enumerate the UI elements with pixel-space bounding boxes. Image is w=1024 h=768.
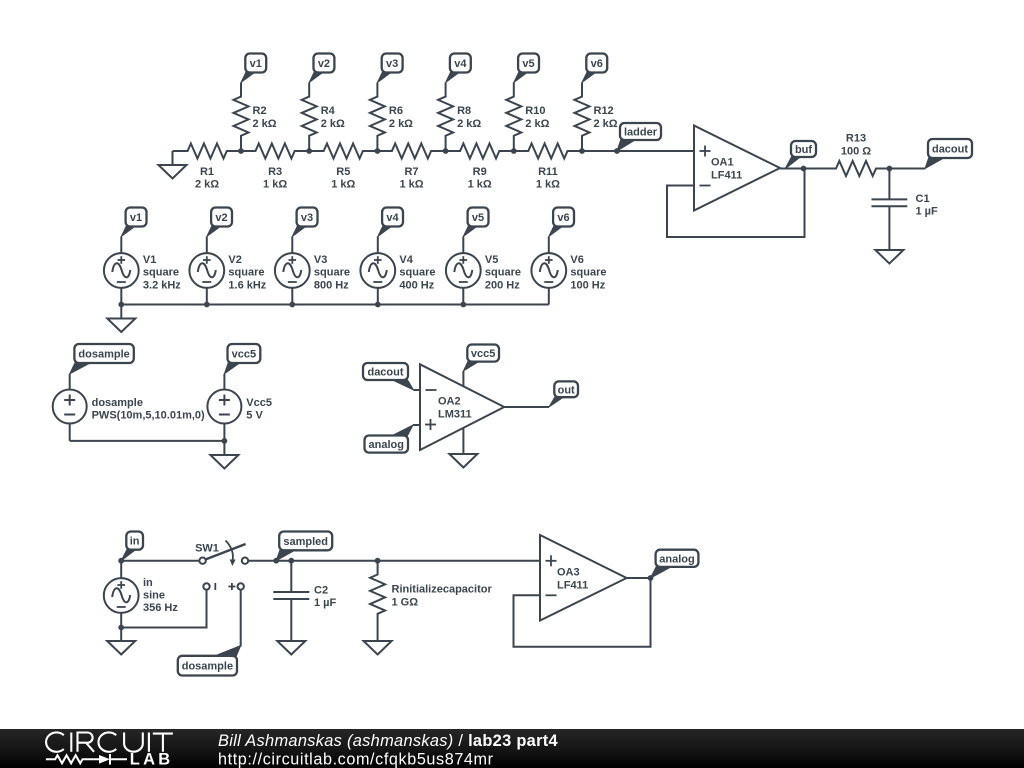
capacitor C2: [273, 561, 336, 641]
junction ladder node 6: [579, 148, 585, 154]
svg-text:dacout: dacout: [932, 144, 968, 156]
svg-text:buf: buf: [795, 144, 812, 156]
svg-text:Bill Ashmanskas (ashmanskas) /: Bill Ashmanskas (ashmanskas) / lab23 par…: [218, 732, 559, 750]
svg-text:1 GΩ: 1 GΩ: [392, 596, 419, 608]
voltage source dosample: [53, 374, 205, 441]
node vcc5 flag: [224, 344, 260, 374]
svg-text:5 V: 5 V: [246, 410, 263, 422]
svg-text:dosample: dosample: [182, 661, 233, 673]
svg-text:square: square: [314, 267, 350, 279]
wire OA1 feedback: [667, 169, 805, 238]
svg-text:in: in: [143, 577, 153, 589]
wire SW1 minus control: [121, 590, 206, 628]
resistor R12: [575, 83, 618, 152]
svg-text:2 kΩ: 2 kΩ: [525, 118, 549, 130]
node v6 flag: [549, 208, 574, 237]
svg-text:dosample: dosample: [78, 349, 129, 361]
resistor R10: [506, 83, 549, 152]
svg-text:R13: R13: [846, 132, 866, 144]
node sampled flag: [273, 532, 332, 564]
svg-text:square: square: [570, 267, 606, 279]
ground: [159, 151, 187, 179]
svg-text:v1: v1: [250, 58, 262, 70]
op-amp OA2: [420, 364, 504, 450]
svg-text:vcc5: vcc5: [232, 349, 256, 361]
junction ladder node 3: [375, 148, 381, 154]
svg-text:V4: V4: [399, 254, 413, 266]
resistor R13: [804, 132, 890, 176]
svg-text:Vcc5: Vcc5: [246, 397, 272, 409]
voltage source Vcc5: [207, 374, 272, 441]
wire analog to OA2: [413, 424, 420, 426]
svg-text:vcc5: vcc5: [471, 348, 495, 360]
svg-text:100 Ω: 100 Ω: [841, 145, 871, 157]
svg-text:V6: V6: [570, 254, 583, 266]
svg-text:Rinitializecapacitor: Rinitializecapacitor: [392, 584, 493, 596]
resistor R4: [302, 83, 345, 152]
resistor R11: [514, 144, 582, 191]
wire OA1 output: [780, 166, 806, 172]
node v1 flag: [121, 208, 146, 237]
node in flag: [121, 532, 143, 561]
svg-text:LF411: LF411: [711, 170, 742, 182]
node dosample flag: [70, 344, 134, 374]
wire SW1 plus control: [240, 590, 242, 647]
svg-text:dacout: dacout: [367, 367, 403, 379]
ground: [107, 628, 135, 655]
node ladder flag: [614, 123, 661, 154]
junction source bus: [460, 302, 466, 308]
svg-text:100 Hz: 100 Hz: [570, 279, 605, 291]
svg-text:2 kΩ: 2 kΩ: [321, 118, 345, 130]
svg-text:square: square: [485, 267, 521, 279]
switch SW1: [195, 541, 248, 591]
svg-text:OA2: OA2: [438, 396, 461, 408]
svg-text:356 Hz: 356 Hz: [143, 602, 178, 614]
junction in node: [118, 558, 124, 564]
svg-text:in: in: [130, 536, 140, 548]
svg-text:v6: v6: [591, 58, 603, 70]
svg-text:3.2 kHz: 3.2 kHz: [143, 279, 181, 291]
svg-text:sine: sine: [143, 590, 165, 602]
voltage source V4: [360, 237, 435, 305]
ground: [210, 441, 238, 469]
voltage source V6: [531, 237, 606, 305]
voltage source V1: [104, 237, 181, 305]
node dacout flag: [925, 139, 972, 169]
node dosample flag: [178, 646, 241, 676]
wire dacout to OA2: [414, 389, 421, 391]
junction source bus: [118, 302, 124, 308]
voltage source V3: [275, 237, 350, 305]
svg-text:1 kΩ: 1 kΩ: [399, 179, 423, 191]
svg-text:sampled: sampled: [283, 536, 328, 548]
svg-text:ladder: ladder: [624, 127, 658, 139]
voltage source in: [104, 561, 179, 628]
resistor Rinitializecapacitor: [370, 561, 492, 641]
node analog flag: [651, 550, 699, 578]
resistor R7: [377, 144, 445, 191]
wire ladder to OA1: [582, 150, 694, 152]
svg-text:R10: R10: [525, 105, 545, 117]
resistor R6: [370, 83, 413, 152]
svg-text:OA1: OA1: [711, 157, 734, 169]
svg-text:1 kΩ: 1 kΩ: [536, 179, 560, 191]
junction source bus: [375, 302, 381, 308]
svg-text:2 kΩ: 2 kΩ: [195, 179, 219, 191]
resistor R1: [173, 144, 242, 191]
svg-text:2 kΩ: 2 kΩ: [389, 118, 413, 130]
svg-text:square: square: [143, 267, 179, 279]
wire SW1 to sampled: [248, 560, 276, 562]
svg-text:R12: R12: [594, 105, 614, 117]
svg-text:R8: R8: [457, 105, 471, 117]
junction ladder node 1: [238, 148, 244, 154]
junction ladder node 4: [443, 148, 449, 154]
svg-text:C1: C1: [916, 193, 930, 205]
node v2 flag: [207, 208, 232, 237]
node buf flag: [785, 141, 816, 169]
svg-text:1 µF: 1 µF: [314, 597, 337, 609]
svg-text:R9: R9: [473, 166, 487, 178]
svg-text:PWS(10m,5,10.01m,0): PWS(10m,5,10.01m,0): [92, 410, 205, 422]
ground: [277, 641, 305, 655]
junction source bus: [204, 302, 210, 308]
svg-text:V3: V3: [314, 254, 327, 266]
svg-text:2 kΩ: 2 kΩ: [457, 118, 481, 130]
voltage source V2: [189, 237, 266, 305]
svg-text:R11: R11: [538, 166, 558, 178]
op-amp OA3: [540, 535, 627, 621]
wire OA3 feedback: [514, 578, 651, 647]
node v6 flag: [582, 54, 607, 83]
svg-text:v6: v6: [557, 212, 569, 224]
svg-text:R6: R6: [389, 105, 403, 117]
node v2 flag: [309, 54, 334, 83]
svg-text:R3: R3: [268, 166, 282, 178]
ground: [875, 250, 903, 264]
ground: [107, 305, 135, 333]
wire sampled bus: [276, 560, 540, 562]
wire in to SW1: [121, 560, 199, 562]
junction R13 C1: [887, 166, 893, 172]
wire OA3 output: [627, 575, 654, 581]
svg-text:R5: R5: [336, 166, 350, 178]
svg-text:dosample: dosample: [92, 397, 143, 409]
svg-text:C2: C2: [314, 585, 328, 597]
svg-text:http://circuitlab.com/cfqkb5us: http://circuitlab.com/cfqkb5us874mr: [218, 751, 494, 768]
resistor R2: [234, 83, 277, 152]
svg-text:SW1: SW1: [195, 542, 219, 554]
svg-text:1.6 kHz: 1.6 kHz: [228, 279, 266, 291]
resistor R9: [446, 144, 514, 191]
svg-text:400 Hz: 400 Hz: [399, 279, 434, 291]
wire to dacout: [889, 168, 925, 170]
svg-text:square: square: [399, 267, 435, 279]
svg-text:v1: v1: [130, 212, 142, 224]
node v4 flag: [446, 54, 471, 83]
svg-text:200 Hz: 200 Hz: [485, 279, 520, 291]
svg-text:v4: v4: [454, 58, 467, 70]
junction ladder node 2: [306, 148, 312, 154]
svg-text:1 µF: 1 µF: [916, 206, 939, 218]
svg-text:v3: v3: [386, 58, 398, 70]
node v3 flag: [292, 208, 317, 237]
junction C2: [288, 558, 294, 564]
footer bar: [0, 729, 1024, 768]
ground: [364, 641, 392, 655]
resistor R3: [241, 144, 309, 191]
svg-text:2 kΩ: 2 kΩ: [594, 118, 618, 130]
node dacout flag: [363, 363, 414, 390]
svg-text:1 kΩ: 1 kΩ: [468, 179, 492, 191]
junction ladder node 5: [511, 148, 517, 154]
svg-text:1 kΩ: 1 kΩ: [331, 179, 355, 191]
node v5 flag: [514, 54, 539, 83]
svg-text:OA3: OA3: [557, 566, 580, 578]
svg-text:v5: v5: [472, 212, 484, 224]
svg-text:R4: R4: [321, 105, 336, 117]
svg-text:R7: R7: [404, 166, 418, 178]
wire OA2 output: [504, 406, 549, 408]
svg-text:v5: v5: [522, 58, 534, 70]
svg-text:2 kΩ: 2 kΩ: [253, 118, 277, 130]
svg-text:out: out: [558, 384, 575, 396]
node v3 flag: [377, 54, 402, 83]
node vcc5 flag: [463, 345, 499, 372]
svg-text:analog: analog: [659, 553, 694, 565]
svg-text:v3: v3: [301, 212, 313, 224]
junction in bottom: [118, 625, 124, 631]
svg-text:analog: analog: [369, 439, 404, 451]
resistor R8: [438, 83, 481, 152]
svg-text:v2: v2: [215, 212, 227, 224]
op-amp OA1: [694, 126, 780, 211]
junction Rinit: [375, 558, 381, 564]
svg-text:V5: V5: [485, 254, 498, 266]
capacitor C1: [872, 169, 939, 251]
wire vcc5 to OA2: [462, 371, 464, 386]
node analog flag: [365, 425, 414, 453]
svg-text:square: square: [228, 267, 264, 279]
svg-text:v4: v4: [386, 212, 399, 224]
svg-text:v2: v2: [318, 58, 330, 70]
svg-text:1 kΩ: 1 kΩ: [263, 179, 287, 191]
svg-text:V2: V2: [228, 254, 241, 266]
node v4 flag: [378, 208, 403, 237]
node v5 flag: [463, 208, 488, 237]
svg-text:V1: V1: [143, 254, 156, 266]
ground: [449, 428, 477, 468]
wire dosample to Vcc5 ground: [70, 438, 228, 444]
voltage source V5: [446, 237, 521, 305]
svg-text:R2: R2: [253, 105, 267, 117]
resistor R5: [309, 144, 377, 191]
junction source bus: [289, 302, 295, 308]
wire source bus: [121, 304, 549, 306]
svg-text:LM311: LM311: [438, 409, 472, 421]
svg-text:R1: R1: [200, 166, 214, 178]
svg-text:800 Hz: 800 Hz: [314, 279, 349, 291]
svg-text:LAB: LAB: [130, 751, 174, 768]
node out flag: [549, 381, 578, 407]
svg-text:LF411: LF411: [557, 580, 588, 592]
node v1 flag: [241, 54, 266, 83]
